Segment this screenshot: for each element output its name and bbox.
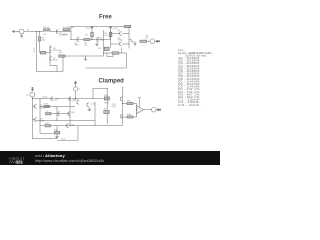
wire rail4 to stage [95,125,123,127]
svg-text:VCC: VCC [86,28,91,30]
transistor Q6 [50,47,52,52]
transistor Q4 [120,31,122,36]
transistor Q10 [77,100,79,105]
wire D2 right [119,52,127,54]
wire riser to top rail [70,27,72,32]
logo circuitlab [9,156,25,165]
wire clamped branch bottom [123,116,128,118]
resistor R7 [38,37,41,41]
output arrow [157,40,160,42]
wire out stage right vertical [128,27,130,49]
resistor R17 [124,25,131,27]
wire bottom return [86,67,127,69]
wire mesh bottom [37,66,64,72]
source I1 [73,87,77,91]
wire clamped mid mesh [40,99,95,134]
footer bar [0,151,220,165]
transistor Q20 [68,111,70,116]
wire input to R1 [24,31,44,33]
wire lower rail [65,55,104,57]
resistor R14 [44,105,50,107]
svg-text:LAB: LAB [17,160,22,164]
wire VCC1 stub [91,31,93,40]
wire VCC2 stub [110,31,112,40]
wire output [129,40,134,42]
svg-text:evez / Allantony: evez / Allantony [35,153,65,158]
transistor Q7 [50,56,52,61]
resistor R3 [109,32,112,36]
transistor Q11 [87,103,89,108]
svg-text:clamp: clamp [42,97,48,99]
ground lower rail [84,56,87,61]
op-amp A2 [137,106,144,114]
wire V2 down rail [31,97,33,139]
supply flag A2 [138,98,141,107]
transistor Q17 [51,96,53,101]
wire clamped bottom left [32,138,57,140]
wire R1 to Q1 [50,31,57,33]
meter M1 [150,39,155,44]
supply flag VCC2 [109,26,111,30]
wire clamped bottom right [57,126,78,141]
capacitor C2 [46,113,51,115]
wire out stage joins [111,34,130,54]
wire riser to R8 [62,56,64,72]
transistor Q19 [58,111,60,116]
transistor Q15 [121,96,123,101]
resistor R10 [45,125,51,127]
wire meter to arrow [155,40,157,42]
wire meter2 lead [156,109,158,111]
ground below Q3 [95,42,98,46]
transistor Q9 [35,118,37,123]
resistor R15 [127,102,133,104]
svg-text:R1 1k: R1 1k [44,27,50,29]
transistor Q18 [69,96,71,101]
transistor Q16 [121,114,123,119]
resistor R11 [54,131,60,134]
wire Q9 stub [32,119,34,121]
diode D1 [63,29,70,31]
svg-text:(CMOS rail-rail): (CMOS rail-rail) [185,54,206,57]
junction dots [32,31,137,126]
capacitor C1 [40,51,46,54]
svg-text:Clamped: Clamped [99,79,125,85]
supply flag I1 [74,81,76,87]
source V1 [19,29,24,34]
wire mid rail riser [70,32,72,40]
svg-text:Key:: Key: [178,50,184,52]
svg-text:C3 - 10uF: C3 - 10uF [178,105,201,107]
transistor Q8 [35,104,37,109]
wire right return vertical [126,53,128,68]
supply flag VCC1 [91,26,93,30]
svg-text:D1 1N4148: D1 1N4148 [63,27,74,29]
wire clamped branch top [123,103,128,105]
resistor R13 [104,110,109,113]
annotation text block [178,50,212,107]
ground below V1 [20,34,23,38]
resistor R9 [104,97,109,100]
wire right rail [103,30,105,56]
resistor R6 [140,40,147,42]
svg-text:http://www.circuitlab.com/c/q5: http://www.circuitlab.com/c/q5zw26834z5k [35,159,104,163]
transistor Q1 [57,29,59,34]
wire top rail [71,26,131,28]
wire clamped top row [32,98,67,100]
wire C1 to Q6 [46,52,50,54]
ground below Q11 [88,107,91,111]
ground at output [133,41,136,45]
resistor R4 [84,38,90,40]
wire clamped branch bottom right [133,116,137,118]
output arrow 2 [158,109,161,111]
transistor Q5 [120,41,122,46]
transistor Q12 [67,123,69,128]
supply cross V2 [31,88,34,91]
resistor R5 [104,47,109,50]
wire left mesh vertical A [36,32,38,72]
transistor Q3 [97,37,99,42]
wire out stage left vertical [110,30,112,48]
resistor R2 [91,32,94,36]
wire clamped rail3 [36,119,95,121]
wire left mesh vertical B [39,32,41,37]
diode D2 [112,52,119,54]
wire I1 down [75,91,77,99]
source V2 [30,92,35,97]
wire R11 stub [56,126,58,139]
resistor R8 [59,55,65,57]
wire clamped rail2 [67,98,107,100]
wire clamped rail4 [40,125,95,127]
wire Q1 to node [57,31,72,33]
wire clamped out stage right [122,87,124,126]
wire opamp out [144,109,152,111]
wire mesh vertical C [49,45,51,66]
wire below R7 [39,41,41,53]
input port P1 [12,31,18,33]
svg-text:Free: Free [99,14,112,20]
wire to meter [147,40,150,42]
wire notch [107,53,113,57]
meter M2 [152,107,157,112]
wire clamped branch top right [133,103,137,105]
resistor R16 [127,116,133,118]
ground clamped [55,136,58,138]
wire Q8 stub [32,105,34,107]
wire [17,31,19,33]
wire clamped out stage left [106,88,108,124]
transistor Q2 [77,37,79,42]
wire opamp input join [136,104,138,118]
resistor R1 [44,29,50,31]
wire clamped top rail [93,88,107,98]
wire mid rail [71,39,111,41]
wire jog rail [104,52,113,54]
